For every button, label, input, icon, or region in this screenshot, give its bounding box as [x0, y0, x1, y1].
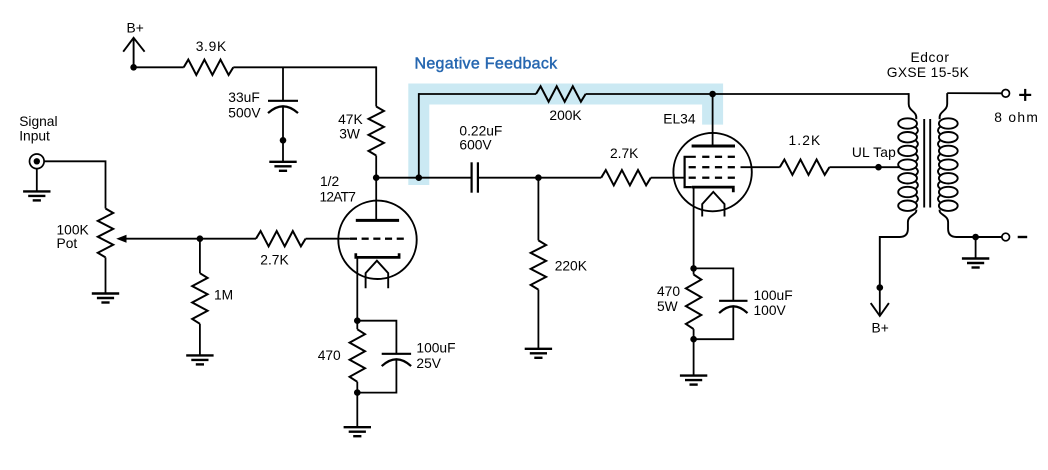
12AT7 cathode [356, 253, 399, 257]
node EL34 plate dot [709, 91, 716, 98]
capacitor C2 100uF 25V branch top [357, 321, 396, 354]
EL34 heater filament [702, 192, 724, 217]
node 220K tap dot [535, 174, 542, 181]
node UL tap dot [875, 164, 882, 171]
resistor R7 2.7K (EL34 grid) [601, 170, 651, 185]
svg-text:1.2K: 1.2K [789, 133, 822, 148]
wire wiper to grid node to 2.7K [126, 238, 256, 240]
svg-text:8 ohm: 8 ohm [994, 110, 1039, 125]
svg-text:3.9K: 3.9K [196, 39, 227, 54]
resistor R11 1.2K [780, 160, 830, 175]
ground (secondary) [962, 257, 989, 259]
resistor R6 470 [350, 329, 365, 382]
wire dot to B+ arrow [879, 288, 881, 315]
svg-text:470: 470 [318, 348, 341, 363]
svg-text:Negative Feedback: Negative Feedback [415, 56, 559, 73]
svg-text:220K: 220K [555, 258, 588, 273]
wire 220K tap down [537, 178, 539, 241]
12AT7 plate bar [356, 219, 399, 222]
wire EL34 cathode to ground [693, 329, 695, 376]
wire plate node to coupling cap [376, 177, 470, 179]
capacitor C1 33uF 500V [268, 100, 298, 102]
EL34 suppressor grid (dashed) [702, 156, 709, 158]
svg-text:12AT7: 12AT7 [320, 189, 356, 204]
12AT7 heater filament [366, 261, 389, 289]
capacitor C4 100uF 100V [719, 300, 747, 302]
svg-text:UL Tap: UL Tap [852, 145, 896, 160]
EL34 cathode lead [693, 187, 695, 274]
ground (pot) [92, 292, 119, 294]
wire plate rail to transformer [713, 93, 909, 95]
svg-text:B+: B+ [127, 21, 144, 36]
transformer primary top lead [909, 93, 917, 119]
12AT7 grid (dashed) [350, 238, 357, 240]
node B+ dot [130, 64, 137, 71]
svg-text:Edcor: Edcor [910, 50, 949, 65]
transformer secondary top lead [940, 93, 948, 119]
ground (input jack) [23, 190, 50, 192]
svg-text:2.7K: 2.7K [260, 252, 289, 267]
wire EL34 screen to 1.2K [741, 166, 780, 168]
12AT7 cathode lead [356, 257, 358, 329]
capacitor C3 0.22uF 600V [471, 162, 473, 192]
svg-text:100uF: 100uF [754, 288, 793, 303]
svg-text:B+: B+ [872, 321, 889, 336]
wire rail tap down to 33uF [282, 67, 284, 101]
svg-text:470: 470 [657, 284, 680, 299]
pot wiper arrow [116, 235, 126, 243]
node secondary ground dot [972, 234, 979, 241]
negative feedback highlight band [419, 94, 713, 185]
node plate junction dot (12AT7) [373, 174, 380, 181]
svg-text:200K: 200K [549, 108, 582, 123]
wire 33uF to ground node [282, 106, 284, 140]
input jack outer circle [30, 154, 45, 169]
EL34 plate bar [692, 145, 735, 148]
svg-text:EL34: EL34 [663, 112, 696, 127]
EL34 plate lead [712, 94, 714, 146]
wire dot to ground [282, 140, 284, 162]
wire input jack to ground [36, 169, 38, 192]
transformer secondary bottom lead [940, 210, 1002, 237]
ground (1M) [186, 354, 213, 356]
wire 2.7K to EL34 grid [651, 177, 685, 179]
wire 2.7K to 12AT7 grid [306, 238, 350, 240]
wire 3.9K to corner (passes 33uF tap) [233, 66, 376, 68]
svg-text:0.22uF: 0.22uF [459, 123, 502, 138]
12AT7 plate lead [375, 178, 377, 221]
svg-text:1M: 1M [214, 287, 233, 302]
wire grid node down to 1M [199, 239, 201, 274]
svg-text:33uF: 33uF [228, 90, 259, 105]
terminal + (8 ohm) [1002, 90, 1010, 98]
capacitor C2 branch bottom [357, 359, 396, 392]
node 33uF ground dot [280, 137, 287, 144]
EL34 control grid (dashed) [689, 177, 696, 179]
svg-text:100V: 100V [754, 303, 787, 318]
resistor R8 220K [531, 240, 546, 289]
svg-text:GXSE 15-5K: GXSE 15-5K [887, 65, 970, 80]
input jack center dot [34, 158, 40, 164]
resistor R2 47K 3W [369, 107, 384, 156]
wire coupling cap to 2.7K [479, 177, 601, 179]
svg-text:3W: 3W [339, 126, 360, 141]
wire input to pot corner [44, 161, 105, 208]
capacitor C2 100uF 25V [382, 353, 411, 355]
node feedback tap dot [416, 174, 423, 181]
svg-text:1/2: 1/2 [320, 174, 339, 189]
symbol plus [1019, 94, 1031, 96]
svg-text:47K: 47K [338, 112, 363, 127]
svg-text:Input: Input [19, 128, 50, 143]
wire pot to ground [105, 257, 107, 293]
svg-text:Signal: Signal [19, 114, 57, 129]
ground (EL34 cathode) [680, 374, 707, 376]
transformer T1 secondary winding [939, 118, 958, 128]
wire 1M to ground [199, 324, 201, 356]
capacitor C4 branch bottom [694, 306, 734, 339]
wire 47K to plate node [375, 156, 377, 178]
resistor R10 470 5W [686, 275, 701, 330]
svg-text:100K: 100K [57, 222, 90, 237]
wire secondary top to + terminal [947, 92, 1002, 94]
svg-text:2.7K: 2.7K [610, 146, 639, 161]
transformer core [923, 119, 925, 208]
EL34 screen grid (dashed) [689, 166, 696, 168]
node grid junction dot [197, 235, 204, 242]
power B+ arrow (top left) [123, 38, 144, 52]
EL34 cathode bar [692, 187, 734, 192]
node cathode top dot (12AT7) [354, 317, 361, 324]
symbol minus [1018, 236, 1027, 238]
wire 220K to ground [537, 290, 539, 349]
svg-text:600V: 600V [459, 138, 492, 153]
transformer primary bottom lead [880, 210, 917, 288]
ground (33uF) [269, 161, 296, 163]
node B+ lead dot (bottom) [877, 284, 884, 291]
resistor R9 200K (feedback) [536, 86, 586, 101]
svg-text:500V: 500V [228, 105, 261, 120]
capacitor C4 100uF 100V branch top [694, 268, 734, 300]
resistor R5 1M [192, 273, 207, 324]
transformer T1 primary winding [898, 118, 917, 128]
wire corner down to 47K [375, 66, 377, 106]
potentiometer R3 100K [98, 209, 113, 258]
terminal - (8 ohm) [1002, 233, 1010, 241]
svg-text:100uF: 100uF [416, 340, 455, 355]
svg-text:Pot: Pot [57, 236, 78, 251]
svg-text:5W: 5W [657, 299, 678, 314]
tube V1 12AT7 envelope [338, 201, 416, 279]
ground (220K) [525, 348, 552, 350]
EL34 suppressor-cathode bracket [685, 157, 696, 187]
svg-text:25V: 25V [416, 356, 441, 371]
wire feedback rail right [586, 93, 713, 95]
resistor R1 3.9K [184, 60, 234, 75]
wire B+ to R 3.9K [134, 66, 184, 68]
tube V2 EL34 envelope [673, 133, 751, 211]
wire cathode to ground (12AT7) [356, 382, 358, 427]
wire secondary to ground [975, 237, 977, 259]
wire feedback vertical [418, 93, 420, 178]
wire 1.2K to UL tap [829, 166, 900, 168]
ground (12AT7 cathode) [344, 426, 371, 428]
node EL34 cathode bottom dot [690, 336, 697, 343]
node EL34 cathode top dot [690, 265, 697, 272]
node cathode bottom dot (12AT7) [354, 389, 361, 396]
power B+ arrow (bottom, pointing down) [871, 303, 889, 316]
wire feedback rail left [419, 93, 536, 95]
resistor R4 2.7K (grid) [256, 231, 306, 246]
